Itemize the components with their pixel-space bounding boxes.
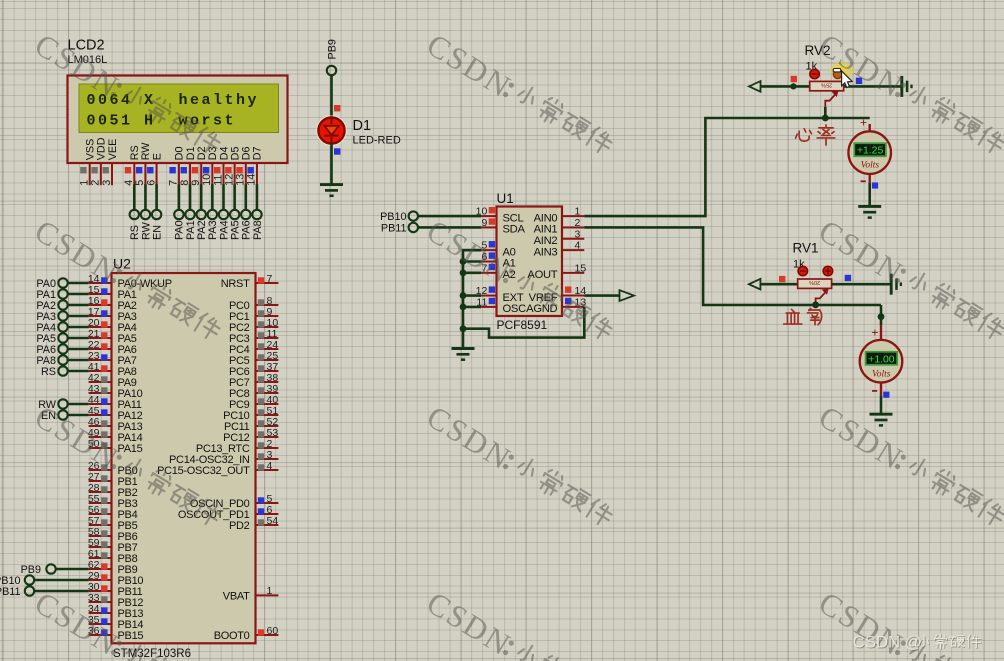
- svg-text:3: 3: [101, 180, 113, 186]
- svg-text:15: 15: [575, 262, 587, 274]
- svg-text:1: 1: [575, 206, 581, 218]
- svg-text:SCL: SCL: [503, 212, 524, 224]
- svg-text:VBAT: VBAT: [223, 590, 250, 602]
- svg-text:AIN0: AIN0: [534, 212, 558, 224]
- svg-text:7: 7: [267, 273, 273, 285]
- svg-text:PB11: PB11: [381, 222, 407, 234]
- svg-text:4: 4: [267, 460, 273, 472]
- svg-text:2: 2: [575, 217, 581, 229]
- svg-text:NRST: NRST: [221, 278, 250, 290]
- svg-text:Volts: Volts: [861, 161, 880, 171]
- svg-text:CSDN: CSDN: [421, 585, 518, 661]
- svg-text:+: +: [860, 116, 867, 130]
- svg-text:CSDN @: CSDN @: [853, 633, 922, 652]
- svg-text:1: 1: [267, 585, 273, 597]
- svg-text:U1: U1: [497, 191, 514, 206]
- svg-text:25%: 25%: [821, 81, 832, 87]
- svg-text:LED-RED: LED-RED: [353, 135, 401, 147]
- svg-text:EN: EN: [151, 225, 163, 240]
- svg-text:OSC: OSC: [503, 303, 527, 315]
- svg-text:9: 9: [481, 217, 487, 229]
- svg-text:PB9: PB9: [21, 564, 41, 576]
- svg-text:+1.25: +1.25: [857, 146, 884, 157]
- svg-text:D1: D1: [353, 118, 372, 134]
- svg-text:14: 14: [246, 174, 258, 186]
- svg-text:PB11: PB11: [0, 586, 21, 598]
- svg-text:+1.00: +1.00: [868, 354, 895, 365]
- svg-text:PCF8591: PCF8591: [497, 318, 548, 332]
- svg-text:20%: 20%: [809, 279, 820, 285]
- svg-text:STM32F103R6: STM32F103R6: [113, 648, 191, 660]
- svg-text:CSDN: CSDN: [421, 27, 518, 105]
- svg-text:BOOT0: BOOT0: [214, 630, 250, 642]
- svg-text:PB10: PB10: [380, 211, 406, 223]
- svg-text:PD2: PD2: [229, 520, 250, 532]
- svg-text:AIN1: AIN1: [534, 224, 558, 236]
- svg-text:PA8: PA8: [252, 220, 264, 240]
- svg-text:CSDN: CSDN: [813, 27, 910, 105]
- svg-text:CSDN: CSDN: [421, 399, 518, 477]
- svg-text:VEE: VEE: [107, 139, 119, 161]
- svg-text:RS: RS: [41, 366, 56, 378]
- svg-text:D7: D7: [252, 146, 264, 160]
- svg-text:E: E: [151, 153, 163, 160]
- svg-text:60: 60: [267, 625, 279, 637]
- svg-text:AIN3: AIN3: [534, 246, 558, 258]
- svg-text:3: 3: [575, 228, 581, 240]
- svg-text:4: 4: [575, 240, 581, 252]
- svg-text:54: 54: [267, 515, 279, 527]
- svg-text:AIN2: AIN2: [534, 235, 558, 247]
- svg-text:+: +: [871, 325, 878, 339]
- svg-text:CSDN: CSDN: [813, 399, 910, 477]
- svg-text:PB9: PB9: [326, 39, 338, 59]
- svg-text:Volts: Volts: [872, 369, 891, 379]
- svg-text:EXT: EXT: [503, 292, 524, 304]
- svg-text:SDA: SDA: [503, 224, 526, 236]
- svg-text:PC15-OSC32_OUT: PC15-OSC32_OUT: [157, 465, 250, 477]
